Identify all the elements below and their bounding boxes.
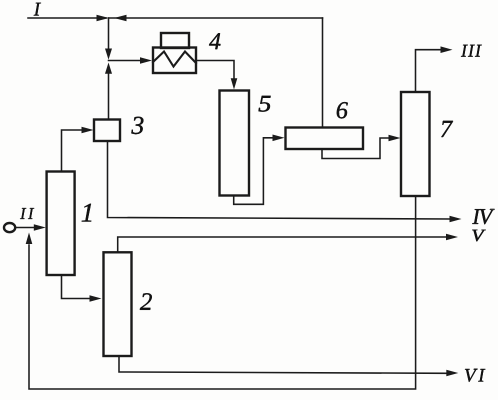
- furnace U4 heating coil zigzag: [153, 52, 196, 67]
- label I: [34, 3, 41, 16]
- column 1: [47, 172, 75, 276]
- label 6: [337, 102, 348, 118]
- wire: riser from unit 3 to mix point: [108, 73, 110, 119]
- column 2: [104, 252, 132, 356]
- column 5: [220, 91, 250, 196]
- label IV: [472, 209, 494, 224]
- wire: column 2 bottoms product line VI: [119, 356, 448, 373]
- arrow: into column 2: [90, 295, 102, 302]
- wire: feed II into column 1: [15, 227, 37, 229]
- arrow: feed I into junction: [97, 15, 110, 22]
- arrow: feed II into column 1: [34, 224, 46, 231]
- wire: column 2 overhead product line V: [118, 237, 448, 252]
- arrow V: [446, 234, 458, 241]
- label 1: [82, 204, 92, 222]
- label V: [472, 230, 485, 242]
- wire: column 5 bottoms to unit 6: [234, 138, 275, 205]
- label 2: [140, 293, 152, 310]
- arrow: into unit 3: [82, 127, 94, 134]
- arrow: recycle into junction (points left): [114, 15, 127, 22]
- wire: unit 6 overhead riser to top recycle: [322, 18, 324, 128]
- label 5: [259, 96, 271, 112]
- wire: junction drop to mix point: [108, 18, 110, 50]
- arrow: into column 5 top: [231, 78, 238, 89]
- label VI: [465, 369, 485, 382]
- wire: column 1 bottoms to column 2: [62, 275, 93, 299]
- label III: [461, 45, 482, 57]
- arrow: into column 7: [389, 135, 401, 142]
- arrow: down into mix point: [105, 49, 112, 60]
- wire: column 7 overhead to III: [416, 50, 443, 92]
- furnace U4 stack: [161, 33, 189, 48]
- wire: feed I horizontal: [28, 17, 106, 19]
- unit 6 (horizontal vessel): [286, 128, 364, 150]
- wire: recycle top horizontal: [109, 17, 323, 19]
- wire: mix point to furnace: [109, 60, 144, 62]
- label II: [20, 208, 34, 219]
- unit 3: [94, 120, 120, 142]
- arrow IV: [450, 216, 462, 223]
- arrow III: [441, 46, 453, 53]
- label 4: [209, 33, 220, 49]
- furnace U4 body: [153, 48, 196, 74]
- wire: unit 3 bottoms product line IV: [108, 141, 452, 219]
- arrow: up into mix point: [105, 63, 112, 74]
- stream II source circle: [4, 223, 15, 232]
- wire: column 7 bottoms recycle to feed II junction: [29, 196, 416, 389]
- label 3: [131, 117, 143, 134]
- wire: unit 6 bottoms to column 7: [322, 138, 390, 159]
- wire: column 1 overhead to unit 3: [62, 130, 85, 172]
- arrow: into furnace: [140, 57, 152, 64]
- column 7: [401, 92, 430, 196]
- arrow: recycle up into feed II line: [26, 233, 33, 245]
- wire: furnace outlet to column 5: [196, 61, 234, 81]
- label 7: [441, 121, 453, 137]
- arrow VI: [446, 370, 458, 377]
- arrow: into unit 6: [273, 135, 285, 142]
